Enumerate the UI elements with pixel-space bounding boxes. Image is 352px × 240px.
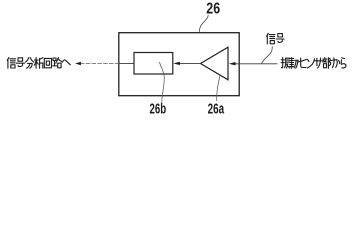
filter block 26b	[134, 53, 173, 75]
label from vibration-sensor-unit (Japanese, right)	[281, 58, 346, 69]
leader line for 26a	[217, 75, 220, 101]
label to signal-analysis-circuit (Japanese, left)	[7, 58, 70, 69]
svg-text:26b: 26b	[150, 101, 167, 117]
leader line for signal label	[262, 46, 273, 63]
arrowhead into 26a	[229, 62, 236, 65]
leader line for 26	[199, 15, 208, 33]
svg-text:26a: 26a	[208, 101, 225, 117]
arrowhead into 26b	[173, 62, 180, 65]
leader line for 26b	[160, 62, 165, 102]
label signal (Japanese)	[267, 33, 285, 44]
wire output left	[80, 63, 119, 65]
op-amp 26a (triangle)	[201, 47, 229, 80]
wire amp to filter	[180, 62, 201, 64]
outer box of amplifier unit 26	[119, 33, 239, 96]
arrowhead output left	[75, 62, 81, 65]
svg-text:26: 26	[206, 1, 220, 18]
wire input right	[235, 63, 278, 65]
